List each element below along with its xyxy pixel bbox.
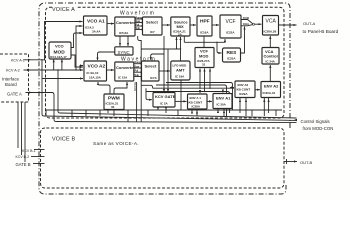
svg-text:from MOD-CON: from MOD-CON	[303, 126, 334, 131]
svg-text:VCF: VCF	[226, 19, 236, 25]
svg-text:3A,4A: 3A,4A	[92, 30, 101, 34]
svg-text:VCO: VCO	[55, 44, 64, 49]
svg-text:MIX: MIX	[177, 24, 184, 29]
svg-text:Control: Control	[264, 54, 278, 59]
svg-text:IC25A: IC25A	[227, 57, 236, 61]
svg-text:IC 15A: IC 15A	[118, 76, 128, 80]
svg-text:OUT-A: OUT-A	[303, 21, 316, 26]
svg-text:AMT: AMT	[176, 68, 185, 73]
svg-text:IC29A: IC29A	[239, 92, 248, 96]
svg-text:GATE A: GATE A	[7, 91, 22, 96]
svg-text:IC30A,31: IC30A,31	[263, 91, 276, 95]
svg-text:Converter: Converter	[116, 65, 135, 70]
svg-text:KCV B-2: KCV B-2	[16, 155, 30, 159]
svg-text:IC 30A: IC 30A	[217, 103, 227, 107]
svg-text:Pul: Pul	[135, 70, 139, 73]
svg-text:NOISE: NOISE	[133, 82, 137, 91]
svg-text:Converter: Converter	[116, 20, 135, 25]
svg-text:IC28A,29: IC28A,29	[264, 30, 277, 34]
svg-text:IC 34A: IC 34A	[266, 60, 276, 64]
svg-text:Sub: Sub	[135, 74, 140, 77]
svg-text:KB CONT: KB CONT	[237, 88, 251, 92]
svg-text:ENV A2: ENV A2	[264, 84, 279, 89]
svg-text:IC11,12A,17: IC11,12A,17	[50, 55, 67, 59]
svg-text:to Panel-B Board: to Panel-B Board	[303, 29, 339, 34]
svg-text:GATE B: GATE B	[16, 162, 31, 167]
svg-text:33: 33	[111, 105, 115, 109]
svg-text:IC 19A: IC 19A	[175, 75, 185, 79]
svg-text:IC22A: IC22A	[226, 31, 235, 35]
svg-text:KCV A-1: KCV A-1	[11, 59, 25, 63]
svg-text:Select: Select	[145, 64, 157, 69]
svg-text:IC16A: IC16A	[200, 31, 209, 35]
svg-text:OUT-B: OUT-B	[300, 160, 313, 165]
svg-text:VOICE B: VOICE B	[52, 137, 75, 143]
svg-text:RES: RES	[227, 50, 238, 56]
svg-text:Ramp: Ramp	[135, 61, 142, 64]
svg-text:HPF: HPF	[200, 19, 210, 25]
svg-text:KCV A-2: KCV A-2	[6, 69, 20, 73]
svg-text:Interface: Interface	[2, 77, 20, 82]
svg-text:IC28A: IC28A	[192, 105, 201, 109]
svg-text:Same as VOICE-A.: Same as VOICE-A.	[93, 141, 139, 146]
svg-text:31: 31	[202, 63, 206, 67]
svg-text:MOD: MOD	[199, 54, 208, 59]
svg-text:ENV A2: ENV A2	[238, 83, 249, 87]
svg-text:IC5,6A: IC5,6A	[119, 31, 129, 35]
svg-text:VOICE A: VOICE A	[52, 7, 75, 13]
svg-text:Sub: Sub	[136, 27, 141, 30]
svg-text:Board: Board	[5, 82, 17, 87]
svg-text:VCO A2: VCO A2	[88, 64, 106, 70]
svg-text:VCA: VCA	[266, 19, 277, 25]
svg-text:VCO A1: VCO A1	[87, 19, 105, 25]
svg-text:Saw: Saw	[135, 66, 140, 69]
svg-text:ENV A 1: ENV A 1	[190, 96, 202, 100]
svg-text:IC 9A,10: IC 9A,10	[87, 71, 99, 75]
svg-text:SYNC: SYNC	[118, 50, 130, 55]
svg-text:IC 2A: IC 2A	[160, 102, 169, 106]
svg-text:Control Signals: Control Signals	[301, 119, 330, 124]
svg-text:OUB: OUB	[243, 16, 249, 20]
svg-text:IC7A: IC7A	[150, 76, 158, 80]
svg-text:KCV B-1: KCV B-1	[22, 149, 36, 153]
svg-text:IC7: IC7	[150, 30, 155, 34]
svg-text:Select: Select	[146, 20, 158, 25]
svg-text:13A,15A: 13A,15A	[89, 76, 102, 80]
svg-text:KCV GATE: KCV GATE	[155, 94, 176, 99]
svg-text:ENV A1: ENV A1	[216, 96, 231, 101]
svg-text:OHA: OHA	[243, 22, 249, 26]
